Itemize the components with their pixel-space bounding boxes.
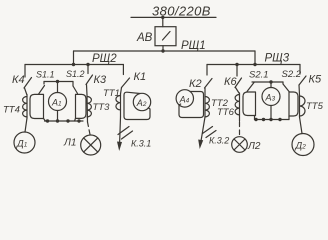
switch S2.1 xyxy=(247,83,254,92)
svg-text:К.3.1: К.3.1 xyxy=(131,139,151,149)
bus РЩ1 xyxy=(74,50,256,52)
junction РЩ2 feed xyxy=(72,63,75,66)
wire РЩ1 to РЩ3 xyxy=(254,51,256,65)
svg-text:S2.2: S2.2 xyxy=(282,69,302,80)
outgoing feeder К.3.1 arrow xyxy=(117,117,133,151)
CT ТТ6 primary xyxy=(235,93,239,121)
CT ТТ6 secondary loop xyxy=(243,92,256,116)
switch К5 xyxy=(299,65,306,96)
svg-text:К2: К2 xyxy=(189,78,202,90)
svg-text:ТТ3: ТТ3 xyxy=(93,102,111,113)
svg-text:АВ: АВ xyxy=(136,32,153,44)
wire breaker to bus РЩ1 xyxy=(162,46,164,51)
switch К6 xyxy=(235,65,242,94)
motor Д1 xyxy=(14,118,35,153)
svg-text:380/220В: 380/220В xyxy=(152,4,211,19)
CT ТТ1 primary xyxy=(116,94,121,117)
wire ТТ3 loop to common line xyxy=(75,118,76,121)
svg-text:К6: К6 xyxy=(224,76,237,88)
CT ТТ5 secondary loop xyxy=(289,92,298,116)
junction К6 on РЩ3 xyxy=(235,63,238,66)
svg-text:S2.1: S2.1 xyxy=(249,70,269,81)
outgoing feeder К.3.2 arrow xyxy=(198,117,216,149)
svg-text:К1: К1 xyxy=(134,71,147,83)
ammeter А1 xyxy=(49,82,67,122)
CT ТТ3 primary xyxy=(87,95,91,122)
switch К2 xyxy=(205,65,213,96)
svg-text:Л1: Л1 xyxy=(63,138,76,149)
junction АВ/РЩ1 xyxy=(161,49,164,52)
svg-text:ТТ1: ТТ1 xyxy=(103,88,120,99)
lamp Л1 xyxy=(81,122,101,155)
svg-text:А1: А1 xyxy=(51,98,62,108)
svg-text:ТТ4: ТТ4 xyxy=(3,105,20,116)
CT ТТ2 primary xyxy=(205,95,209,117)
wire ТТ4 loop to common line xyxy=(44,119,46,122)
svg-text:РЩ3: РЩ3 xyxy=(265,53,290,65)
svg-text:К4: К4 xyxy=(12,74,25,86)
CT ТТ4 secondary loop xyxy=(30,94,44,118)
junction РЩ3 feed xyxy=(253,63,256,66)
wire supply to breaker xyxy=(162,17,164,26)
svg-text:К.3.2: К.3.2 xyxy=(209,136,229,146)
switch S2.2 xyxy=(283,82,289,92)
svg-text:К5: К5 xyxy=(309,74,322,86)
wire ТТ6 loop to common line xyxy=(254,116,256,120)
svg-text:S1.1: S1.1 xyxy=(36,70,55,80)
ammeter А4 with CT ТТ2 secondary loop xyxy=(176,90,203,118)
bottom common line А1 loop xyxy=(45,119,84,122)
node line А1 top xyxy=(44,81,73,83)
switch К3 xyxy=(86,65,93,96)
junction А3 top xyxy=(269,80,272,83)
supply line 380/220V xyxy=(131,16,216,18)
wire ТТ5 loop to common line xyxy=(288,116,290,120)
svg-text:Д2: Д2 xyxy=(295,141,307,152)
motor Д2 xyxy=(292,117,314,156)
svg-text:Л2: Л2 xyxy=(247,141,261,152)
switch S1.2 xyxy=(73,82,78,94)
svg-text:РЩ1: РЩ1 xyxy=(181,40,206,52)
junction supply/breaker xyxy=(161,16,164,19)
switch К1 xyxy=(121,65,130,95)
ammeter А2 with CT ТТ1 secondary loop xyxy=(124,92,151,119)
node line А3 top xyxy=(252,81,283,83)
ammeter А3 xyxy=(262,82,280,120)
switch S1.1 xyxy=(39,82,45,95)
bottom common line А3 loop xyxy=(254,118,289,121)
junction К3 on РЩ2 xyxy=(86,63,89,66)
wire РЩ1 to РЩ2 xyxy=(73,51,75,65)
svg-text:РЩ2: РЩ2 xyxy=(92,53,117,65)
CT ТТ3 secondary loop xyxy=(76,94,87,118)
bus РЩ2 xyxy=(25,64,123,66)
circuit breaker АВ xyxy=(155,27,176,46)
switch К4 xyxy=(24,65,32,95)
CT ТТ4 primary xyxy=(23,95,27,119)
svg-text:S1.2: S1.2 xyxy=(66,69,85,79)
svg-text:ТТ6: ТТ6 xyxy=(217,107,235,118)
svg-text:А3: А3 xyxy=(265,93,276,103)
bus РЩ3 xyxy=(207,64,300,66)
svg-text:А2: А2 xyxy=(136,98,147,108)
svg-text:ТТ5: ТТ5 xyxy=(306,101,324,112)
CT ТТ5 primary xyxy=(300,95,306,117)
svg-text:Д1: Д1 xyxy=(16,139,28,150)
junction А1 top xyxy=(56,80,59,83)
svg-text:К3: К3 xyxy=(94,74,107,86)
lamp Л2 xyxy=(232,122,248,152)
svg-text:А4: А4 xyxy=(179,94,190,104)
